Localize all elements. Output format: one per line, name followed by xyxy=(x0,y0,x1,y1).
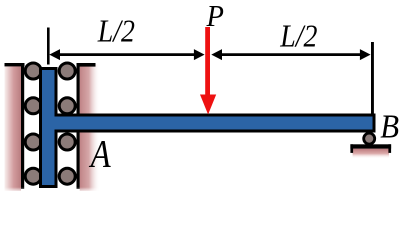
wall left top black border xyxy=(5,63,25,66)
arrowhead right-right xyxy=(360,49,371,60)
arrowhead left-left xyxy=(49,49,60,60)
wall right (fixed guide wall) xyxy=(77,63,101,191)
extension line right xyxy=(371,42,374,114)
svg-text:A: A xyxy=(89,132,112,175)
svg-text:L/2: L/2 xyxy=(97,14,135,49)
dimension line right L/2 xyxy=(219,53,363,56)
dimension line left L/2 xyxy=(57,53,196,56)
roller right column 2 xyxy=(59,98,75,114)
roller at B xyxy=(364,133,375,144)
support pad under B xyxy=(350,144,391,158)
svg-text:L/2: L/2 xyxy=(279,19,317,54)
arrowhead right-left xyxy=(211,49,222,60)
roller right column 3 xyxy=(59,134,75,150)
roller right column 1 xyxy=(59,63,75,79)
roller left column 3 xyxy=(25,134,41,150)
wall left inner black border xyxy=(21,63,24,189)
extension line left xyxy=(47,28,50,65)
svg-text:B: B xyxy=(380,107,399,144)
roller left column 2 xyxy=(25,98,41,114)
wall left (fixed guide wall) xyxy=(5,63,25,191)
beam with guided post (T member) xyxy=(41,69,375,187)
svg-text:P: P xyxy=(206,0,224,33)
roller left column 1 xyxy=(25,63,41,79)
force arrow P (red) xyxy=(200,27,216,115)
roller left column 4 xyxy=(25,168,41,184)
arrowhead left-right xyxy=(194,49,205,60)
wall right top black border xyxy=(77,63,96,67)
wall right inner black border xyxy=(77,63,80,189)
roller right column 4 xyxy=(59,168,75,184)
